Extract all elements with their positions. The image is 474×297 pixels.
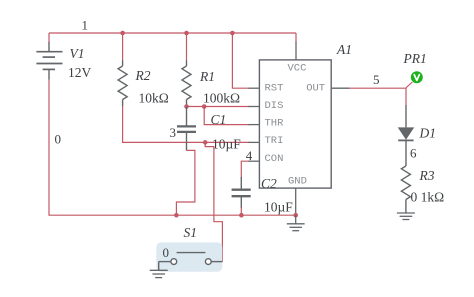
wire R2 top: [122, 33, 124, 61]
svg-text:A1: A1: [336, 42, 352, 57]
wire top rail net 1: [49, 32, 296, 34]
pin stub OUT: [331, 87, 349, 89]
svg-text:0 1kΩ: 0 1kΩ: [411, 190, 445, 205]
svg-text:6: 6: [410, 145, 417, 160]
svg-text:12V: 12V: [68, 65, 92, 80]
resistor R3: [401, 166, 410, 213]
wire R1 top: [186, 33, 188, 61]
diode D1: [398, 105, 415, 166]
svg-text:D1: D1: [419, 126, 437, 141]
pin stub DIS: [249, 106, 260, 108]
svg-text:0: 0: [163, 245, 170, 260]
svg-text:GND: GND: [288, 175, 307, 187]
svg-text:0: 0: [55, 132, 62, 147]
capacitor C2: [232, 177, 251, 208]
junction dot top rail R1: [184, 31, 189, 36]
svg-text:VCC: VCC: [288, 62, 307, 74]
svg-text:100kΩ: 100kΩ: [203, 91, 240, 106]
svg-text:5: 5: [373, 72, 380, 87]
svg-text:THR: THR: [265, 118, 285, 130]
pin stub THR: [249, 124, 260, 126]
ground symbol at GND pin: [287, 215, 305, 231]
svg-text:10kΩ: 10kΩ: [139, 91, 169, 106]
junction dot rail C1: [174, 213, 179, 218]
wire battery top stub: [48, 33, 50, 43]
ground symbol at S1: [150, 270, 168, 277]
wire THR: [204, 107, 250, 125]
switch S1: [159, 253, 223, 271]
probe leader line: [406, 82, 412, 88]
svg-text:R3: R3: [419, 168, 435, 183]
resistor R1: [182, 61, 191, 107]
svg-text:DIS: DIS: [265, 100, 284, 112]
battery V1: [36, 42, 62, 80]
probe PR1: [411, 71, 423, 83]
svg-text:V1: V1: [70, 46, 85, 61]
svg-text:10µF: 10µF: [212, 137, 241, 152]
capacitor C1: [177, 107, 196, 151]
svg-text:10µF: 10µF: [264, 200, 293, 215]
svg-text:OUT: OUT: [306, 82, 325, 94]
wire VCC drop: [295, 33, 297, 42]
svg-text:C1: C1: [211, 112, 227, 127]
pin stub VCC: [295, 42, 297, 60]
wire CON: [241, 161, 250, 178]
wire R2 bottom to TRI (net 3): [123, 106, 250, 142]
svg-text:S1: S1: [184, 225, 198, 240]
svg-text:CON: CON: [265, 153, 284, 165]
op-amp U1 (555 timer A1) box: [259, 60, 331, 188]
wire C2 bottom: [240, 207, 242, 215]
pin stub GND: [295, 188, 297, 215]
junction dot R1 bottom: [184, 104, 189, 109]
junction dot rail C2: [239, 213, 244, 218]
pin stub CON: [249, 160, 260, 162]
wire OUT net 5: [349, 88, 406, 106]
svg-text:TRI: TRI: [265, 135, 284, 147]
junction dot rail GND: [293, 213, 298, 218]
junction dot THR tap: [202, 104, 207, 109]
svg-text:R2: R2: [135, 68, 151, 83]
wire C1 bottom to rail: [176, 150, 195, 215]
wire RST to top rail: [232, 33, 250, 88]
pin stub RST: [249, 87, 260, 89]
junction dot top rail RST: [230, 31, 235, 36]
svg-text:3: 3: [170, 125, 177, 140]
wire DIS net (R1 bottom): [187, 106, 251, 108]
ground symbol at R3: [397, 213, 415, 220]
svg-text:PR1: PR1: [403, 51, 427, 66]
svg-text:R1: R1: [199, 69, 215, 84]
resistor R2: [118, 61, 127, 107]
wire left rail net 0: [49, 80, 296, 216]
wire TRI to switch: [205, 142, 222, 261]
junction dot TRI switch tap: [203, 140, 208, 145]
svg-text:RST: RST: [265, 82, 284, 94]
pin stub TRI: [249, 141, 260, 143]
junction dot top rail R2: [120, 31, 125, 36]
svg-text:1: 1: [82, 18, 89, 33]
switch S1 highlight: [156, 242, 222, 271]
